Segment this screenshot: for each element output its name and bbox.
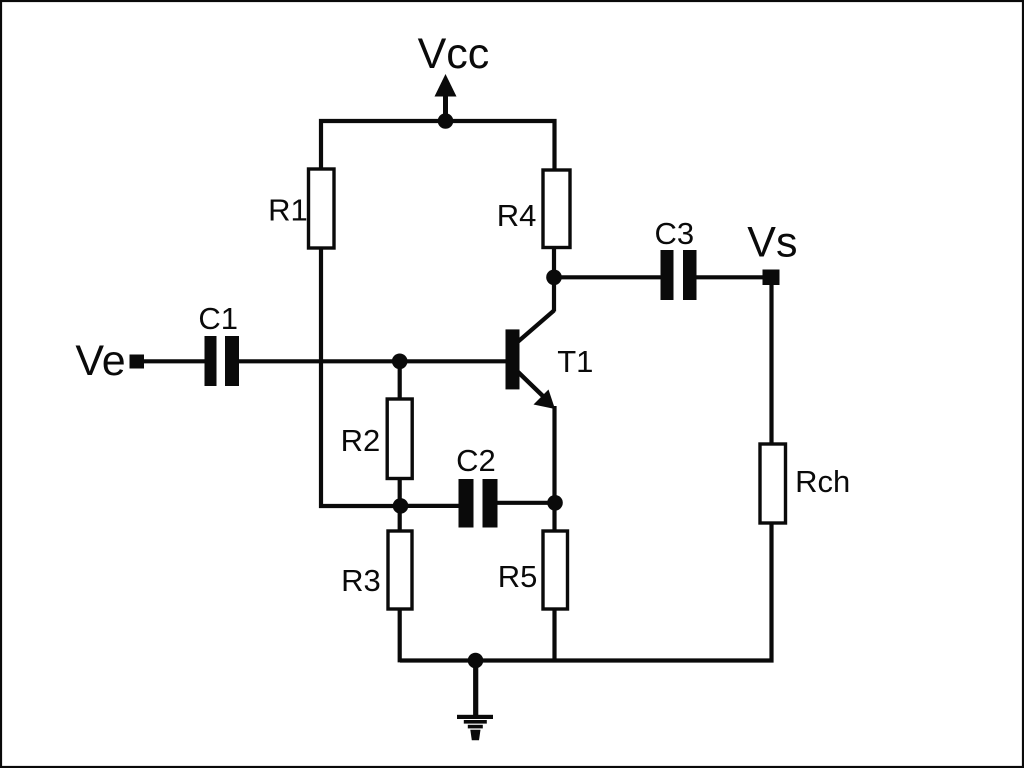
wire R1 bottom to lower-left corner (321, 248, 400, 506)
svg-text:C3: C3 (655, 216, 695, 251)
svg-text:C2: C2 (456, 443, 496, 478)
node collector junction dot (546, 270, 562, 286)
svg-text:R3: R3 (341, 563, 381, 598)
wire R4 bottom to collector node (552, 248, 556, 278)
svg-text:Vs: Vs (747, 219, 797, 267)
resistor R5 (543, 531, 568, 609)
node ground junction dot (468, 653, 484, 669)
wire Ve to C1 (143, 359, 205, 363)
wire R2 bottom to emitter-divider node (398, 479, 402, 532)
resistor R4 (543, 170, 570, 248)
wire divider node to C2 (400, 504, 459, 508)
wire C1 to transistor base (239, 359, 506, 363)
svg-text:Ve: Ve (75, 337, 125, 385)
wire C2 to emitter node (498, 501, 555, 505)
svg-text:R5: R5 (498, 559, 538, 594)
svg-text:R1: R1 (268, 193, 308, 228)
wire R3 bottom to ground rail (398, 609, 402, 662)
transistor T1 (506, 277, 556, 503)
wire R5 top to emitter node (552, 503, 556, 531)
capacitor C1 (205, 336, 240, 386)
svg-text:R2: R2 (341, 423, 381, 458)
wire R5 bottom to ground rail (552, 609, 556, 662)
wire collector node to C3 (554, 275, 661, 279)
Vcc power arrow (435, 74, 457, 121)
wire C3 to Vs terminal (697, 275, 766, 279)
resistor R3 (388, 531, 412, 609)
node base junction dot (392, 354, 408, 370)
node divider junction dot (393, 498, 409, 514)
wire Rch bottom to ground rail (400, 523, 772, 661)
svg-text:R4: R4 (497, 198, 537, 233)
wire top rail (321, 121, 555, 170)
svg-text:Vcc: Vcc (418, 30, 490, 78)
wire Vs down to Rch (769, 284, 773, 444)
ground (457, 661, 493, 741)
resistor R1 (309, 169, 335, 248)
svg-text:T1: T1 (557, 344, 593, 379)
node Vs terminal square (763, 270, 780, 286)
capacitor C3 (661, 250, 697, 300)
resistor Rch (760, 444, 786, 523)
node Ve terminal square (130, 355, 145, 369)
capacitor C2 (459, 479, 498, 528)
node Vcc junction dot (438, 113, 454, 129)
node emitter junction dot (547, 495, 563, 511)
svg-text:Rch: Rch (795, 464, 850, 499)
resistor R2 (387, 399, 412, 479)
svg-text:C1: C1 (198, 301, 238, 336)
wire base node down to R2 (398, 361, 402, 399)
